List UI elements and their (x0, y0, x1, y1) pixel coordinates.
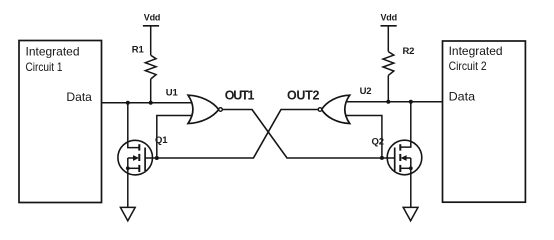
U2 output inversion bubble (318, 108, 322, 112)
svg-text:R2: R2 (403, 46, 415, 57)
wire OUT1 cross-coupled to Q2 gate (222, 110, 382, 159)
IC2 label Integrated Circuit 2 (449, 44, 503, 73)
transistor Q1 body circle (118, 140, 153, 175)
svg-text:Q1: Q1 (155, 135, 168, 146)
wire OUT2 cross-coupled to Q1 gate (157, 110, 319, 159)
svg-text:Vdd: Vdd (381, 13, 397, 23)
node Q2 gate junction (380, 156, 384, 160)
op-amp U2 NOR gate body (mirrored) (322, 95, 350, 123)
IC1 box (19, 41, 102, 203)
Q2 bulk-source tie (410, 158, 412, 168)
node Data1/R1 junction (149, 101, 153, 105)
Q1 channel segments (138, 144, 140, 172)
svg-text:Integrated: Integrated (449, 44, 503, 58)
node Data2/Q2 drain junction (409, 100, 413, 104)
svg-text:Circuit 2: Circuit 2 (449, 59, 487, 73)
Q1 bulk arrow (128, 155, 139, 161)
power Vdd2 rail bar (381, 25, 397, 27)
wire R1 to Data1 net (150, 79, 152, 103)
Q2 bulk arrow (401, 155, 411, 161)
IC1 label Integrated Circuit 1 (26, 44, 80, 73)
node Data2/R2 junction (386, 100, 390, 104)
svg-text:U2: U2 (360, 86, 372, 97)
power Vdd1 rail bar (143, 25, 159, 27)
node Q1 gate junction (155, 156, 159, 160)
wire Q1 source to ground (127, 168, 129, 207)
Q1 source stub (128, 167, 140, 169)
svg-text:Circuit 1: Circuit 1 (26, 60, 63, 74)
svg-text:OUT1: OUT1 (225, 89, 255, 103)
resistor R1 (145, 55, 156, 79)
IC2 box (443, 41, 526, 202)
wire Vdd1 to R1 (150, 26, 152, 55)
wire Q2 source to ground (410, 168, 412, 207)
svg-text:Integrated: Integrated (26, 44, 80, 58)
wire Data1 net (IC1 to U1 input A) (102, 102, 197, 104)
Q2 channel segments (399, 144, 401, 172)
svg-text:Q2: Q2 (372, 136, 384, 147)
wire U1 input B (from Q1 gate node) (157, 116, 197, 159)
node Q1 source junction (126, 166, 130, 170)
ground right (403, 207, 418, 220)
wire Q1 drain (128, 103, 140, 148)
U1 output inversion bubble (219, 108, 223, 112)
node Q2 source junction (409, 166, 413, 170)
svg-text:Vdd: Vdd (144, 13, 160, 23)
node Data1/Q1 drain junction (126, 101, 130, 105)
wire R2 to Data2 net (387, 75, 389, 101)
ground left (120, 207, 135, 220)
Q1 gate plate (144, 148, 146, 172)
Q1 bulk-source tie (127, 158, 129, 168)
wire Vdd2 to R2 (387, 26, 389, 52)
resistor R2 (383, 52, 394, 76)
op-amp U1 NOR gate body (188, 95, 219, 123)
svg-text:R1: R1 (132, 45, 145, 56)
svg-text:U1: U1 (166, 87, 179, 98)
wire Q2 gate lead (382, 157, 395, 159)
Q2 source stub (400, 167, 411, 169)
wire Data2 net (U2 input A to IC2) (344, 101, 443, 103)
wire Q1 gate lead (145, 157, 157, 159)
wire U2 input B (from Q2 gate node) (344, 116, 382, 158)
Q2 gate plate (394, 148, 396, 172)
svg-text:OUT2: OUT2 (287, 89, 319, 103)
svg-text:Data: Data (449, 89, 476, 103)
svg-text:Data: Data (66, 90, 92, 104)
wire Q2 drain (400, 102, 411, 147)
transistor Q2 body circle (387, 140, 422, 175)
